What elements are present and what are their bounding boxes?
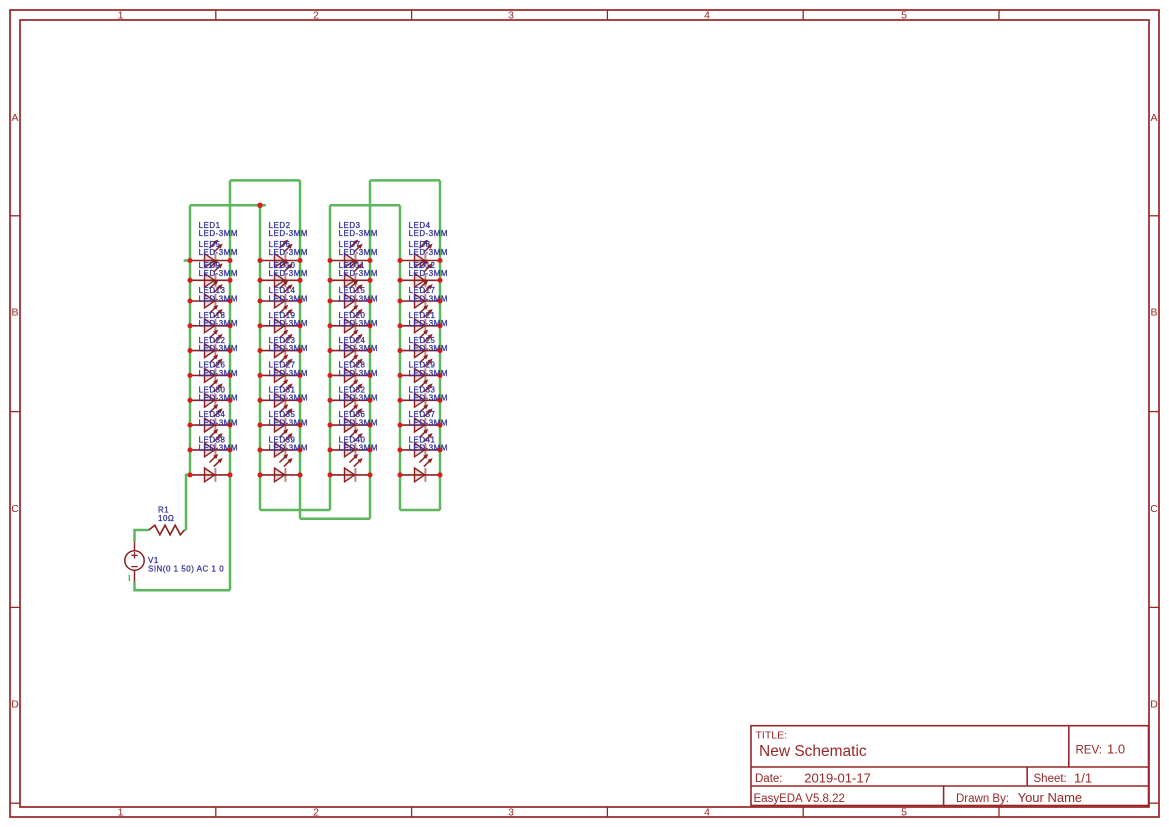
svg-text:REV:: REV: xyxy=(1076,744,1102,756)
junction LED8 anode pin on column4 left rail xyxy=(397,278,402,283)
LED LED18 xyxy=(190,330,230,358)
junction LED36 anode pin on column3 left rail xyxy=(327,447,332,452)
junction LED24 cathode pin on column3 right rail xyxy=(367,373,372,378)
junction LED4 cathode pin on column4 right rail xyxy=(437,258,442,263)
svg-text:A: A xyxy=(1150,112,1157,124)
svg-text:LED-3MM: LED-3MM xyxy=(409,418,448,427)
junction LED9 cathode pin on column1 right rail xyxy=(227,298,232,303)
junction LED37 anode pin on column4 left rail xyxy=(397,447,402,452)
svg-text:Your Name: Your Name xyxy=(1018,790,1083,805)
svg-text:2: 2 xyxy=(313,807,319,819)
LED LED28 xyxy=(330,379,370,407)
junction LED31 cathode pin on column2 right rail xyxy=(297,423,302,428)
svg-text:Drawn By:: Drawn By: xyxy=(956,793,1009,805)
LED LED19 xyxy=(260,330,300,358)
junction LED21 cathode pin on column4 right rail xyxy=(437,348,442,353)
label LED10 designator and value xyxy=(269,261,308,278)
LED LED1 xyxy=(190,240,230,268)
junction LED10 anode pin on column2 left rail xyxy=(257,298,262,303)
LED LED11 xyxy=(330,280,370,308)
junction LED4 anode pin on column4 left rail xyxy=(397,258,402,263)
svg-text:10Ω: 10Ω xyxy=(158,514,174,523)
label LED41 designator and value xyxy=(409,435,448,452)
junction LED31 anode pin on column2 left rail xyxy=(257,423,262,428)
junction LED27 anode pin on column2 left rail xyxy=(257,398,262,403)
junction LED21 anode pin on column4 left rail xyxy=(397,348,402,353)
wire column3 right rail xyxy=(369,180,372,518)
junction LED34 cathode pin on column1 right rail xyxy=(227,447,232,452)
svg-text:LED-3MM: LED-3MM xyxy=(269,444,308,453)
junction LED18 cathode pin on column1 right rail xyxy=(227,348,232,353)
svg-text:C: C xyxy=(1150,503,1158,515)
svg-text:LED-3MM: LED-3MM xyxy=(269,319,308,328)
LED LED32 xyxy=(330,404,370,432)
wire bus col3-left to col4-left xyxy=(330,204,400,207)
label LED7 designator and value xyxy=(339,240,378,257)
LED LED7 xyxy=(330,259,370,287)
svg-text:LED-3MM: LED-3MM xyxy=(409,269,448,278)
label LED9 designator and value xyxy=(199,261,238,278)
label LED19 designator and value xyxy=(269,311,308,328)
label LED25 designator and value xyxy=(409,336,448,353)
wire column2 left rail xyxy=(259,205,262,510)
label LED29 designator and value xyxy=(409,361,448,378)
junction LED14 cathode pin on column2 right rail xyxy=(297,323,302,328)
svg-text:1/1: 1/1 xyxy=(1074,770,1092,785)
junction LED35 cathode pin on column2 right rail xyxy=(297,447,302,452)
svg-text:C: C xyxy=(11,503,19,515)
LED LED39 xyxy=(260,454,300,482)
svg-text:LED-3MM: LED-3MM xyxy=(199,369,238,378)
junction LED2 anode pin on column2 left rail xyxy=(257,258,262,263)
junction LED10 cathode pin on column2 right rail xyxy=(297,298,302,303)
svg-text:B: B xyxy=(1150,307,1157,319)
junction dot node col2-left bus xyxy=(257,203,263,209)
LED LED24 xyxy=(330,354,370,382)
wire stub left of LED row1 xyxy=(184,259,190,262)
junction LED23 anode pin on column2 left rail xyxy=(257,373,262,378)
V1 current direction mark I xyxy=(128,575,130,581)
junction LED11 anode pin on column3 left rail xyxy=(327,298,332,303)
svg-text:LED-3MM: LED-3MM xyxy=(409,229,448,238)
label LED13 designator and value xyxy=(199,286,238,303)
LED LED38 xyxy=(190,454,230,482)
junction LED12 anode pin on column4 left rail xyxy=(397,298,402,303)
junction LED36 cathode pin on column3 right rail xyxy=(367,447,372,452)
LED LED22 xyxy=(190,354,230,382)
LED LED21 xyxy=(400,330,440,358)
LED LED31 xyxy=(260,404,300,432)
junction LED33 cathode pin on column4 right rail xyxy=(437,423,442,428)
svg-text:LED-3MM: LED-3MM xyxy=(339,229,378,238)
wire top bus col1-right to col2-right xyxy=(230,179,300,182)
junction LED38 cathode pin on column1 right rail xyxy=(227,472,232,477)
label LED22 designator and value xyxy=(199,336,238,353)
junction LED15 cathode pin on column3 right rail xyxy=(367,323,372,328)
svg-text:LED-3MM: LED-3MM xyxy=(339,369,378,378)
svg-text:LED-3MM: LED-3MM xyxy=(199,444,238,453)
wire R1 right to column1 left rail xyxy=(184,529,186,532)
label LED23 designator and value xyxy=(269,336,308,353)
junction LED30 anode pin on column1 left rail xyxy=(187,423,192,428)
wire column3 left rail xyxy=(329,205,332,510)
LED LED36 xyxy=(330,429,370,457)
svg-text:D: D xyxy=(1150,698,1158,710)
svg-text:LED-3MM: LED-3MM xyxy=(199,319,238,328)
label LED4 designator and value xyxy=(409,221,448,238)
LED LED29 xyxy=(400,379,440,407)
svg-text:LED-3MM: LED-3MM xyxy=(199,229,238,238)
junction LED1 cathode pin on column1 right rail xyxy=(227,258,232,263)
label LED30 designator and value xyxy=(199,385,238,402)
LED LED17 xyxy=(400,305,440,333)
label LED40 designator and value xyxy=(339,435,378,452)
junction LED20 anode pin on column3 left rail xyxy=(327,348,332,353)
svg-text:5: 5 xyxy=(901,10,907,22)
junction LED41 anode pin on column4 left rail xyxy=(397,472,402,477)
svg-text:LED-3MM: LED-3MM xyxy=(269,248,308,257)
junction LED26 cathode pin on column1 right rail xyxy=(227,398,232,403)
LED LED40 xyxy=(330,454,370,482)
label LED5 designator and value xyxy=(199,240,238,257)
svg-text:B: B xyxy=(11,307,18,319)
svg-text:New Schematic: New Schematic xyxy=(759,743,867,760)
junction LED9 anode pin on column1 left rail xyxy=(187,298,192,303)
junction LED32 cathode pin on column3 right rail xyxy=(367,423,372,428)
label LED28 designator and value xyxy=(339,361,378,378)
junction LED22 anode pin on column1 left rail xyxy=(187,373,192,378)
svg-text:LED-3MM: LED-3MM xyxy=(199,269,238,278)
LED LED27 xyxy=(260,379,300,407)
svg-text:Date:: Date: xyxy=(755,773,783,785)
junction LED3 anode pin on column3 left rail xyxy=(327,258,332,263)
wire bottom link col4-left to col4-right xyxy=(400,509,440,512)
junction LED20 cathode pin on column3 right rail xyxy=(367,348,372,353)
junction LED28 cathode pin on column3 right rail xyxy=(367,398,372,403)
label LED17 designator and value xyxy=(409,286,448,303)
svg-text:2: 2 xyxy=(313,10,319,22)
LED LED37 xyxy=(400,429,440,457)
label LED6 designator and value xyxy=(269,240,308,257)
svg-text:3: 3 xyxy=(508,10,514,22)
wire bottom link col2-left to col3-left xyxy=(260,509,330,512)
LED LED30 xyxy=(190,404,230,432)
junction LED32 anode pin on column3 left rail xyxy=(327,423,332,428)
LED LED8 xyxy=(400,259,440,287)
svg-text:4: 4 xyxy=(704,807,710,819)
junction LED22 cathode pin on column1 right rail xyxy=(227,373,232,378)
svg-text:A: A xyxy=(11,112,18,124)
resistor R1 xyxy=(149,525,185,535)
label LED33 designator and value xyxy=(409,385,448,402)
junction LED18 anode pin on column1 left rail xyxy=(187,348,192,353)
wire column2 right rail xyxy=(299,180,302,518)
label LED18 designator and value xyxy=(199,311,238,328)
junction LED26 anode pin on column1 left rail xyxy=(187,398,192,403)
junction LED39 cathode pin on column2 right rail xyxy=(297,472,302,477)
label LED21 designator and value xyxy=(409,311,448,328)
svg-text:LED-3MM: LED-3MM xyxy=(339,294,378,303)
label LED11 designator and value xyxy=(339,261,378,278)
LED LED35 xyxy=(260,429,300,457)
svg-text:LED-3MM: LED-3MM xyxy=(339,418,378,427)
svg-text:LED-3MM: LED-3MM xyxy=(409,394,448,403)
label LED31 designator and value xyxy=(269,385,308,402)
LED LED5 xyxy=(190,259,230,287)
junction LED19 anode pin on column2 left rail xyxy=(257,348,262,353)
svg-text:Sheet:: Sheet: xyxy=(1034,773,1067,785)
label LED12 designator and value xyxy=(409,261,448,278)
junction LED33 anode pin on column4 left rail xyxy=(397,423,402,428)
LED LED9 xyxy=(190,280,230,308)
svg-text:LED-3MM: LED-3MM xyxy=(339,269,378,278)
junction LED8 cathode pin on column4 right rail xyxy=(437,278,442,283)
junction LED13 cathode pin on column1 right rail xyxy=(227,323,232,328)
svg-text:LED-3MM: LED-3MM xyxy=(269,394,308,403)
wire column4 right rail xyxy=(439,180,442,510)
voltage source V1 xyxy=(125,541,144,581)
svg-text:LED-3MM: LED-3MM xyxy=(409,319,448,328)
wire column4 left rail xyxy=(399,205,402,510)
LED LED3 xyxy=(330,240,370,268)
LED LED34 xyxy=(190,429,230,457)
svg-text:2019-01-17: 2019-01-17 xyxy=(804,770,871,785)
junction LED12 cathode pin on column4 right rail xyxy=(437,298,442,303)
svg-text:LED-3MM: LED-3MM xyxy=(409,344,448,353)
junction LED15 anode pin on column3 left rail xyxy=(327,323,332,328)
wire bus col1-left to col2-left xyxy=(190,204,266,207)
label LED27 designator and value xyxy=(269,361,308,378)
LED LED25 xyxy=(400,354,440,382)
junction LED17 cathode pin on column4 right rail xyxy=(437,323,442,328)
LED LED4 xyxy=(400,240,440,268)
label LED34 designator and value xyxy=(199,410,238,427)
junction LED5 cathode pin on column1 right rail xyxy=(227,278,232,283)
junction LED6 cathode pin on column2 right rail xyxy=(297,278,302,283)
junction LED29 cathode pin on column4 right rail xyxy=(437,398,442,403)
junction LED3 cathode pin on column3 right rail xyxy=(367,258,372,263)
junction LED7 cathode pin on column3 right rail xyxy=(367,278,372,283)
label LED15 designator and value xyxy=(339,286,378,303)
label LED35 designator and value xyxy=(269,410,308,427)
svg-text:LED-3MM: LED-3MM xyxy=(339,444,378,453)
LED LED33 xyxy=(400,404,440,432)
junction LED14 anode pin on column2 left rail xyxy=(257,323,262,328)
svg-text:LED-3MM: LED-3MM xyxy=(199,294,238,303)
svg-text:5: 5 xyxy=(901,807,907,819)
wire column1 right rail xyxy=(229,180,232,590)
junction LED11 cathode pin on column3 right rail xyxy=(367,298,372,303)
svg-text:4: 4 xyxy=(704,10,710,22)
label LED3 designator and value xyxy=(339,221,378,238)
junction LED34 anode pin on column1 left rail xyxy=(187,447,192,452)
junction LED41 cathode pin on column4 right rail xyxy=(437,472,442,477)
junction LED25 anode pin on column4 left rail xyxy=(397,373,402,378)
label LED24 designator and value xyxy=(339,336,378,353)
svg-text:3: 3 xyxy=(508,807,514,819)
svg-text:LED-3MM: LED-3MM xyxy=(339,394,378,403)
LED LED41 xyxy=(400,454,440,482)
svg-text:LED-3MM: LED-3MM xyxy=(269,229,308,238)
junction LED37 cathode pin on column4 right rail xyxy=(437,447,442,452)
LED LED15 xyxy=(330,305,370,333)
svg-text:LED-3MM: LED-3MM xyxy=(269,344,308,353)
junction LED6 anode pin on column2 left rail xyxy=(257,278,262,283)
svg-text:1: 1 xyxy=(118,807,124,819)
svg-text:LED-3MM: LED-3MM xyxy=(199,418,238,427)
wire bottom link col2-right to col3-right xyxy=(300,518,370,521)
LED LED20 xyxy=(330,330,370,358)
junction LED27 cathode pin on column2 right rail xyxy=(297,398,302,403)
svg-text:1.0: 1.0 xyxy=(1107,742,1125,757)
junction LED40 anode pin on column3 left rail xyxy=(327,472,332,477)
svg-text:LED-3MM: LED-3MM xyxy=(339,344,378,353)
junction LED40 cathode pin on column3 right rail xyxy=(367,472,372,477)
junction LED7 anode pin on column3 left rail xyxy=(327,278,332,283)
label LED8 designator and value xyxy=(409,240,448,257)
svg-text:SIN(0 1 50) AC 1 0: SIN(0 1 50) AC 1 0 xyxy=(148,565,224,574)
junction LED39 anode pin on column2 left rail xyxy=(257,472,262,477)
svg-text:LED-3MM: LED-3MM xyxy=(269,369,308,378)
svg-text:LED-3MM: LED-3MM xyxy=(269,418,308,427)
label LED1 designator and value xyxy=(199,221,238,238)
label LED14 designator and value xyxy=(269,286,308,303)
svg-text:LED-3MM: LED-3MM xyxy=(269,294,308,303)
svg-text:1: 1 xyxy=(118,10,124,22)
label LED37 designator and value xyxy=(409,410,448,427)
svg-text:LED-3MM: LED-3MM xyxy=(199,344,238,353)
LED LED14 xyxy=(260,305,300,333)
svg-text:LED-3MM: LED-3MM xyxy=(409,444,448,453)
svg-text:LED-3MM: LED-3MM xyxy=(409,369,448,378)
label LED20 designator and value xyxy=(339,311,378,328)
LED LED10 xyxy=(260,280,300,308)
junction LED23 cathode pin on column2 right rail xyxy=(297,373,302,378)
svg-text:LED-3MM: LED-3MM xyxy=(269,269,308,278)
label LED38 designator and value xyxy=(199,435,238,452)
label LED39 designator and value xyxy=(269,435,308,452)
LED LED6 xyxy=(260,259,300,287)
junction LED29 anode pin on column4 left rail xyxy=(397,398,402,403)
label LED2 designator and value xyxy=(269,221,308,238)
junction LED38 anode pin on column1 left rail xyxy=(187,472,192,477)
junction LED2 cathode pin on column2 right rail xyxy=(297,258,302,263)
label LED26 designator and value xyxy=(199,361,238,378)
junction LED19 cathode pin on column2 right rail xyxy=(297,348,302,353)
junction LED17 anode pin on column4 left rail xyxy=(397,323,402,328)
svg-text:LED-3MM: LED-3MM xyxy=(409,248,448,257)
svg-text:EasyEDA V5.8.22: EasyEDA V5.8.22 xyxy=(754,793,845,805)
junction LED13 anode pin on column1 left rail xyxy=(187,323,192,328)
wire V1 bottom to column1 right rail xyxy=(135,582,231,591)
LED LED2 xyxy=(260,240,300,268)
junction LED28 anode pin on column3 left rail xyxy=(327,398,332,403)
LED LED26 xyxy=(190,379,230,407)
svg-text:LED-3MM: LED-3MM xyxy=(199,394,238,403)
wire column1 left rail xyxy=(186,205,190,530)
svg-text:TITLE:: TITLE: xyxy=(756,730,788,742)
title block xyxy=(751,726,1149,806)
wire top bus col3-right to col4-right xyxy=(370,179,440,182)
junction LED1 anode pin on column1 left rail xyxy=(187,258,192,263)
junction LED25 cathode pin on column4 right rail xyxy=(437,373,442,378)
junction LED30 cathode pin on column1 right rail xyxy=(227,423,232,428)
svg-text:LED-3MM: LED-3MM xyxy=(339,248,378,257)
junction LED5 anode pin on column1 left rail xyxy=(187,278,192,283)
label LED36 designator and value xyxy=(339,410,378,427)
svg-text:LED-3MM: LED-3MM xyxy=(199,248,238,257)
svg-text:LED-3MM: LED-3MM xyxy=(409,294,448,303)
junction LED24 anode pin on column3 left rail xyxy=(327,373,332,378)
svg-text:LED-3MM: LED-3MM xyxy=(339,319,378,328)
LED LED23 xyxy=(260,354,300,382)
svg-text:D: D xyxy=(11,698,19,710)
wire V1 top to R1 left xyxy=(135,530,149,541)
LED LED13 xyxy=(190,305,230,333)
LED LED12 xyxy=(400,280,440,308)
junction LED35 anode pin on column2 left rail xyxy=(257,447,262,452)
label LED32 designator and value xyxy=(339,385,378,402)
